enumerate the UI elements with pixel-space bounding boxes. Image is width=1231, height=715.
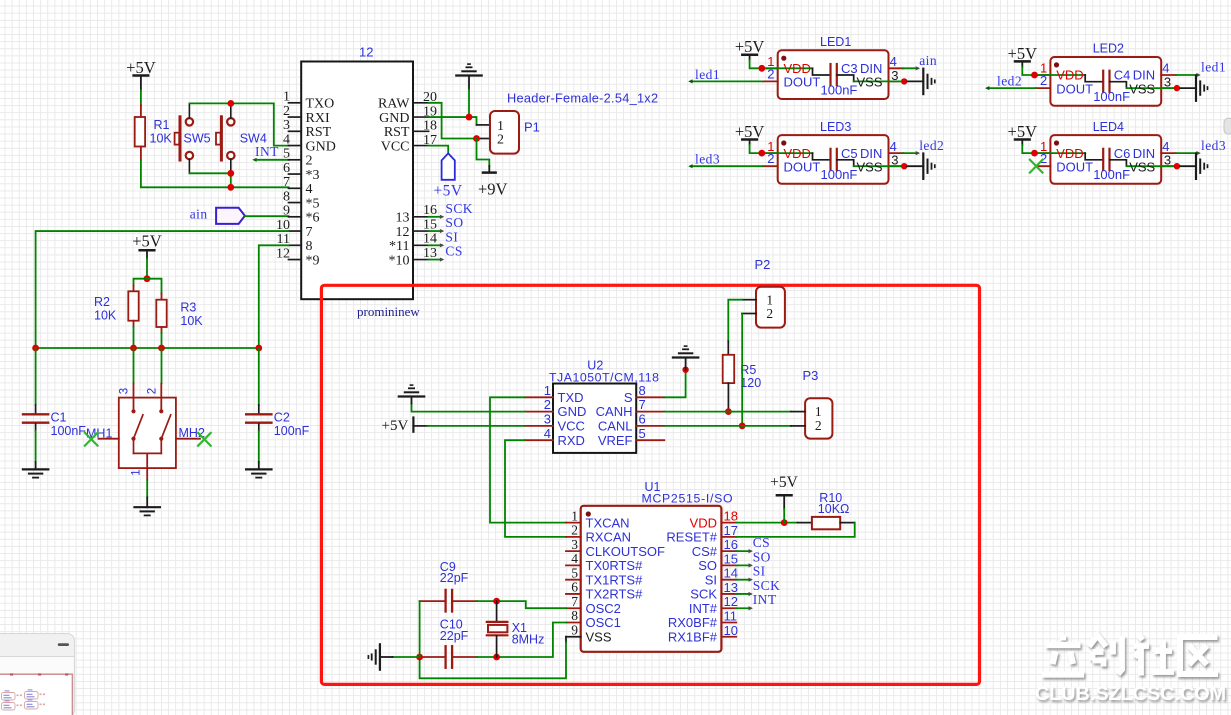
svg-text:SCK: SCK — [445, 201, 473, 216]
svg-text:CLUB.SZLCSC.COM: CLUB.SZLCSC.COM — [1035, 683, 1226, 705]
svg-text:C5: C5 — [841, 146, 858, 161]
svg-text:100nF: 100nF — [274, 424, 310, 438]
svg-text:led1: led1 — [695, 67, 720, 82]
junction — [416, 654, 423, 661]
svg-text:C1: C1 — [51, 411, 67, 425]
svg-text:CS#: CS# — [692, 544, 718, 559]
svg-text:4: 4 — [544, 426, 551, 441]
svg-text:2: 2 — [147, 388, 159, 394]
U1 pin 5 (TX1RTS#) — [566, 579, 581, 581]
svg-text:15: 15 — [423, 217, 437, 232]
svg-text:led1: led1 — [1201, 60, 1226, 75]
svg-text:R3: R3 — [180, 301, 196, 315]
svg-text:100nF: 100nF — [821, 82, 858, 97]
net label led2 wire (DIN) — [903, 152, 917, 154]
U1 pin 13 (SCK) — [721, 593, 736, 595]
wire TXD to U1 TXCAN — [490, 397, 566, 522]
svg-text:5: 5 — [571, 565, 578, 580]
svg-text:CANL: CANL — [598, 419, 633, 434]
svg-text:22pF: 22pF — [440, 571, 469, 585]
svg-text:13: 13 — [423, 246, 437, 261]
pin stubs — [763, 152, 778, 154]
svg-text:RST: RST — [384, 125, 410, 140]
svg-text:14: 14 — [423, 232, 437, 247]
svg-text:SI: SI — [753, 564, 766, 579]
pin 7 (4) — [289, 187, 302, 189]
svg-text:3: 3 — [544, 412, 551, 427]
resistor R1 — [140, 105, 142, 117]
pin 2 (RXI) — [289, 116, 302, 118]
svg-text:4: 4 — [890, 139, 897, 154]
wire switches top to IC pin4 — [188, 103, 190, 118]
U1 pin 11 (RX0BF#) — [721, 621, 736, 623]
svg-text:ain: ain — [190, 206, 208, 221]
power flag +5V on VCC — [429, 146, 449, 154]
svg-text:VSS: VSS — [857, 75, 883, 90]
U1 pin 2 (RXCAN) — [566, 536, 581, 538]
svg-text:SI: SI — [705, 572, 717, 587]
LED module LED4 — [1050, 135, 1161, 184]
U2 pin 8 (S) — [636, 396, 664, 398]
svg-text:C4: C4 — [1114, 68, 1131, 83]
junction — [682, 367, 688, 373]
svg-text:R1: R1 — [154, 118, 170, 132]
junction — [493, 654, 500, 661]
junction — [758, 65, 765, 72]
pin 15 (12) net SO — [413, 230, 429, 232]
ground — [673, 356, 698, 358]
svg-text:6: 6 — [639, 412, 646, 427]
U1 pin 15 (SO) — [721, 564, 736, 566]
svg-text:22pF: 22pF — [440, 629, 469, 643]
svg-text:16: 16 — [423, 203, 437, 218]
crystal X1 — [496, 601, 498, 621]
svg-text:TX1RTS#: TX1RTS# — [586, 572, 644, 587]
svg-text:CS: CS — [753, 535, 770, 550]
pin 20 (RAW) — [413, 102, 429, 104]
floating preview window — [0, 634, 75, 715]
junction — [758, 150, 765, 157]
svg-text:6: 6 — [283, 161, 290, 176]
svg-text:+5V: +5V — [1008, 44, 1038, 63]
svg-text:RAW: RAW — [378, 97, 410, 112]
bus wire — [36, 347, 259, 349]
svg-text:VDD: VDD — [690, 515, 717, 530]
svg-text:R2: R2 — [94, 295, 110, 309]
preview mini schematic glyphs — [2, 692, 39, 711]
svg-text:7: 7 — [283, 175, 290, 190]
svg-text:13: 13 — [396, 211, 410, 226]
pin1 dot — [781, 56, 786, 61]
pin1 dot — [781, 140, 786, 145]
wire VSS to ground — [889, 165, 905, 167]
junction — [493, 598, 500, 605]
ground — [922, 154, 924, 179]
wire +5V to VDD — [1022, 67, 1050, 75]
switch SW4 — [220, 117, 223, 160]
svg-text:8: 8 — [571, 608, 578, 623]
junction — [1031, 72, 1038, 79]
svg-text:RXCAN: RXCAN — [586, 530, 632, 545]
U2 pin 6 (CANL) — [636, 425, 664, 427]
svg-text:2: 2 — [283, 104, 290, 119]
svg-text:GND: GND — [379, 111, 409, 126]
svg-text:8MHz: 8MHz — [512, 633, 545, 647]
svg-text:VSS: VSS — [1129, 159, 1155, 174]
junction — [158, 345, 165, 352]
common rail to pin 1 — [134, 452, 162, 454]
svg-text:100nF: 100nF — [1093, 89, 1130, 104]
pin 6 (*3) — [289, 173, 302, 175]
svg-text:4: 4 — [283, 132, 290, 147]
svg-text:3: 3 — [119, 388, 131, 394]
capacitor C2 — [258, 348, 260, 405]
U1 pin 7 (OSC2) — [566, 607, 581, 609]
wire IC pin11 down — [259, 245, 289, 348]
svg-text:S: S — [624, 390, 633, 405]
svg-text:INT: INT — [255, 144, 279, 159]
svg-text:SCK: SCK — [690, 587, 717, 602]
internal wires and capacitor C6 — [1050, 152, 1085, 154]
svg-text:VCC: VCC — [381, 139, 410, 154]
U1 pin 6 (TX2RTS#) — [566, 593, 581, 595]
svg-text:LED4: LED4 — [1093, 120, 1124, 134]
IC U2 TJA1050T body — [553, 384, 636, 453]
svg-text:2: 2 — [544, 397, 551, 412]
U2 pin 5 (VREF) — [636, 439, 664, 441]
U1 pin 1 (TXCAN) — [566, 522, 581, 524]
svg-text:4: 4 — [571, 551, 578, 566]
svg-text:5: 5 — [283, 147, 290, 162]
svg-text:P3: P3 — [803, 368, 819, 383]
svg-text:RXI: RXI — [306, 111, 330, 126]
switch SW5 — [179, 117, 182, 160]
svg-text:VCC: VCC — [558, 419, 585, 434]
svg-text:10K: 10K — [150, 131, 173, 145]
svg-text:2: 2 — [815, 418, 822, 433]
svg-text:TXD: TXD — [558, 390, 584, 405]
svg-text:9: 9 — [571, 622, 578, 637]
svg-text:TX2RTS#: TX2RTS# — [586, 587, 644, 602]
svg-text:1: 1 — [815, 404, 822, 419]
resistor R3 — [147, 279, 162, 294]
pin stubs — [1036, 74, 1051, 76]
junction — [725, 408, 732, 415]
svg-text:DOUT: DOUT — [1056, 81, 1093, 96]
svg-text:4: 4 — [1162, 139, 1169, 154]
wire — [140, 90, 142, 105]
pin 17 (VCC) — [413, 145, 429, 147]
svg-text:SCK: SCK — [753, 578, 781, 593]
svg-text:100nF: 100nF — [51, 424, 87, 438]
ground — [23, 468, 48, 470]
svg-text:ain: ain — [919, 53, 937, 68]
junction — [227, 184, 234, 191]
svg-text:SO: SO — [753, 549, 771, 564]
U2 pin 3 (VCC) — [525, 425, 553, 427]
svg-text:18: 18 — [423, 119, 437, 134]
U1 pin 12 (INT#) — [721, 607, 736, 609]
junction — [32, 345, 39, 352]
svg-text:3: 3 — [571, 537, 578, 552]
svg-text:+5V: +5V — [770, 474, 798, 491]
pin 5 (2) — [289, 159, 302, 161]
svg-text:17: 17 — [724, 523, 738, 538]
svg-text:11: 11 — [724, 608, 738, 623]
pin 4 (GND) — [289, 145, 302, 147]
U1 pin 10 (RX1BF#) — [721, 636, 736, 638]
svg-text:120: 120 — [740, 376, 761, 390]
wire OSC1 — [497, 623, 566, 658]
net label led3 wire (DIN) — [1176, 152, 1198, 154]
U2 pin 1 (TXD) — [525, 396, 553, 398]
ground — [1195, 154, 1197, 179]
svg-text:VREF: VREF — [598, 433, 633, 448]
pin 16 (13) net SCK — [413, 216, 429, 218]
wire R10 to RESET# — [736, 523, 855, 537]
junction — [781, 519, 788, 526]
wire to +9V — [477, 139, 490, 167]
wire +5V to VDD — [750, 145, 778, 153]
svg-text:16: 16 — [724, 537, 738, 552]
wire RAW pin20 to P1 pin2 — [429, 103, 477, 139]
LED module LED1 — [778, 50, 889, 99]
wire switches bottom — [188, 159, 190, 173]
net label led1 wire (DIN) — [1176, 74, 1198, 76]
svg-text:promininew: promininew — [357, 304, 420, 319]
junction — [227, 100, 234, 107]
IC U1 MCP2515 body — [581, 506, 722, 652]
svg-text:10K: 10K — [94, 308, 117, 322]
svg-text:5: 5 — [639, 426, 646, 441]
pin 10 (7) — [289, 230, 302, 232]
U2 pin 4 (RXD) — [525, 439, 553, 441]
svg-text:RX0BF#: RX0BF# — [668, 615, 718, 630]
svg-text:4: 4 — [1162, 61, 1169, 76]
junction — [473, 135, 480, 142]
svg-text:12: 12 — [276, 246, 290, 261]
net stub INT — [736, 607, 750, 609]
svg-text:7: 7 — [639, 397, 646, 412]
wires bus to MH switch — [133, 348, 135, 384]
pin 8 (*5) — [289, 202, 302, 204]
svg-text:led3: led3 — [695, 152, 720, 167]
junction — [466, 114, 473, 121]
internal wires and capacitor C4 — [1050, 74, 1085, 76]
MH dual switch body — [119, 398, 176, 469]
svg-text:+5V: +5V — [1008, 122, 1038, 141]
svg-text:CS: CS — [445, 244, 462, 259]
svg-text:C3: C3 — [841, 61, 858, 76]
LED module LED3 — [778, 135, 889, 184]
wire to left ground — [393, 656, 420, 658]
svg-text:+5V: +5V — [433, 182, 462, 199]
no-connect X MH1 — [85, 433, 98, 446]
junction — [739, 423, 746, 430]
ground — [456, 74, 481, 76]
U1 pin 8 (OSC1) — [566, 621, 581, 623]
junction — [255, 345, 262, 352]
svg-text:3: 3 — [283, 118, 290, 133]
svg-text:led3: led3 — [1201, 138, 1226, 153]
ground — [922, 69, 924, 94]
pin 9 (*6) — [289, 216, 302, 218]
pins 3 and 2 — [133, 384, 135, 410]
svg-text:*9: *9 — [306, 253, 320, 268]
svg-text:1: 1 — [131, 469, 143, 475]
pin stubs — [763, 67, 778, 69]
svg-text:+5V: +5V — [132, 232, 162, 251]
svg-text:+9V: +9V — [478, 180, 508, 199]
net stub SO — [736, 564, 750, 566]
svg-text:OSC2: OSC2 — [586, 601, 621, 616]
svg-text:*5: *5 — [306, 196, 320, 211]
watermark CLUB.SZLCSC.COM — [1035, 635, 1226, 705]
net label ain wire (DIN) — [903, 67, 917, 69]
wire CANL to P3 pin2 — [664, 425, 791, 427]
svg-text:14: 14 — [724, 566, 738, 581]
wire — [146, 259, 148, 279]
svg-text:*3: *3 — [306, 168, 320, 183]
resistor R10 — [797, 522, 812, 524]
junction — [227, 170, 234, 177]
svg-text:GND: GND — [558, 404, 587, 419]
pin 12 (*9) — [289, 259, 302, 261]
svg-text:+5V: +5V — [735, 122, 765, 141]
pin1 dot — [1054, 140, 1059, 145]
svg-text:TX0RTS#: TX0RTS# — [586, 558, 644, 573]
svg-text:DOUT: DOUT — [784, 75, 821, 90]
wire GND to ground — [412, 404, 525, 412]
svg-text:2: 2 — [497, 132, 504, 147]
U1 pin 4 (TX0RTS#) — [566, 564, 581, 566]
svg-text:LED1: LED1 — [820, 35, 851, 49]
svg-text:8: 8 — [306, 239, 313, 254]
svg-text:led2: led2 — [919, 138, 944, 153]
wire R1 to pin7 net — [141, 160, 289, 187]
svg-text:2: 2 — [306, 154, 313, 169]
svg-text:C6: C6 — [1114, 146, 1131, 161]
svg-text:7: 7 — [306, 225, 313, 240]
resistor R2 — [134, 279, 148, 286]
wire IC pin10 to left bus — [36, 231, 289, 348]
svg-text:+5V: +5V — [735, 37, 765, 56]
U1 pin 16 (CS#) — [721, 550, 736, 552]
net stub SCK — [736, 593, 750, 595]
svg-text:OSC1: OSC1 — [586, 615, 621, 630]
pin stubs — [1036, 152, 1051, 154]
svg-text:MCP2515-I/SO: MCP2515-I/SO — [642, 492, 734, 506]
svg-text:4: 4 — [890, 54, 897, 69]
svg-text:12: 12 — [396, 225, 410, 240]
svg-text:1: 1 — [283, 90, 290, 105]
side panel tab — [1224, 118, 1231, 134]
pin 14 (*11) net SI — [413, 244, 429, 246]
ground — [399, 395, 424, 397]
svg-text:2: 2 — [766, 306, 773, 321]
svg-text:*10: *10 — [389, 253, 410, 268]
ground — [1195, 75, 1197, 100]
wire GND pin19 to ground and P1 pin1 — [429, 116, 469, 118]
U1 pin 18 (VDD) — [721, 522, 736, 524]
svg-text:7: 7 — [571, 594, 578, 609]
svg-text:RXD: RXD — [558, 433, 585, 448]
pin 1 (TXO) — [289, 102, 302, 104]
LED module LED2 — [1050, 57, 1161, 106]
IC U_promini body — [301, 62, 413, 300]
svg-text:13: 13 — [724, 580, 738, 595]
svg-text:LED3: LED3 — [820, 120, 851, 134]
svg-text:8: 8 — [283, 189, 290, 204]
svg-text:VSS: VSS — [586, 629, 612, 644]
U2 pin 7 (CANH) — [636, 411, 664, 413]
group frame P2 (red) — [321, 285, 979, 684]
svg-text:DOUT: DOUT — [1056, 159, 1093, 174]
wire CANH to P3 pin1 — [664, 411, 791, 413]
svg-text:TXO: TXO — [306, 97, 335, 112]
switch levers — [134, 415, 143, 439]
resistor R5 — [723, 355, 735, 383]
wire +5V to VDD — [750, 60, 778, 68]
junction — [144, 275, 151, 282]
svg-text:SO: SO — [445, 215, 463, 230]
svg-text:VSS: VSS — [857, 159, 883, 174]
svg-text:9: 9 — [283, 204, 290, 219]
svg-text:100nF: 100nF — [821, 167, 858, 182]
svg-text:*11: *11 — [389, 239, 409, 254]
net stub SI — [736, 579, 750, 581]
svg-text:10K: 10K — [180, 314, 203, 328]
svg-text:6: 6 — [571, 580, 578, 595]
wire VSS to ground — [889, 80, 905, 82]
wire VSS to ground — [1161, 165, 1177, 167]
U1 pin 3 (CLKOUTSOF) — [566, 550, 581, 552]
svg-text:SW5: SW5 — [184, 132, 211, 146]
net stub CS — [736, 550, 750, 552]
svg-text:TXCAN: TXCAN — [586, 515, 630, 530]
svg-text:RX1BF#: RX1BF# — [668, 629, 718, 644]
svg-text:SO: SO — [698, 558, 717, 573]
no-connect X on DOUT — [1030, 160, 1043, 173]
pin 13 (*10) net CS — [413, 259, 429, 261]
pin 19 (GND) — [413, 116, 429, 118]
power flag +9V — [488, 166, 490, 173]
svg-text:8: 8 — [639, 383, 646, 398]
svg-text:+5V: +5V — [382, 418, 409, 434]
wire VDD +5V R10 — [736, 522, 797, 524]
connector P1 — [490, 111, 519, 154]
internal wires and capacitor C3 — [778, 67, 813, 69]
U1 pin 17 (RESET#) — [721, 536, 736, 538]
svg-text:12: 12 — [359, 45, 373, 60]
wire P2 pin1 to R5 — [728, 300, 742, 342]
svg-text:GND: GND — [306, 139, 336, 154]
junction — [1031, 150, 1038, 157]
pin1 dot — [586, 511, 591, 516]
svg-text:LED2: LED2 — [1093, 42, 1124, 56]
svg-text:VSS: VSS — [1129, 81, 1155, 96]
svg-text:12: 12 — [724, 594, 738, 609]
U1 pin 9 (VSS) — [566, 636, 581, 638]
svg-text:SI: SI — [445, 229, 458, 244]
wire S to ground — [664, 370, 685, 397]
U1 pin 14 (SI) — [721, 579, 736, 581]
pin 3 (RST) — [289, 130, 302, 132]
svg-text:10KΩ: 10KΩ — [818, 502, 850, 516]
wire C9 left to C10 left — [419, 601, 421, 657]
svg-text:100nF: 100nF — [1093, 167, 1130, 182]
svg-text:1: 1 — [766, 292, 773, 307]
